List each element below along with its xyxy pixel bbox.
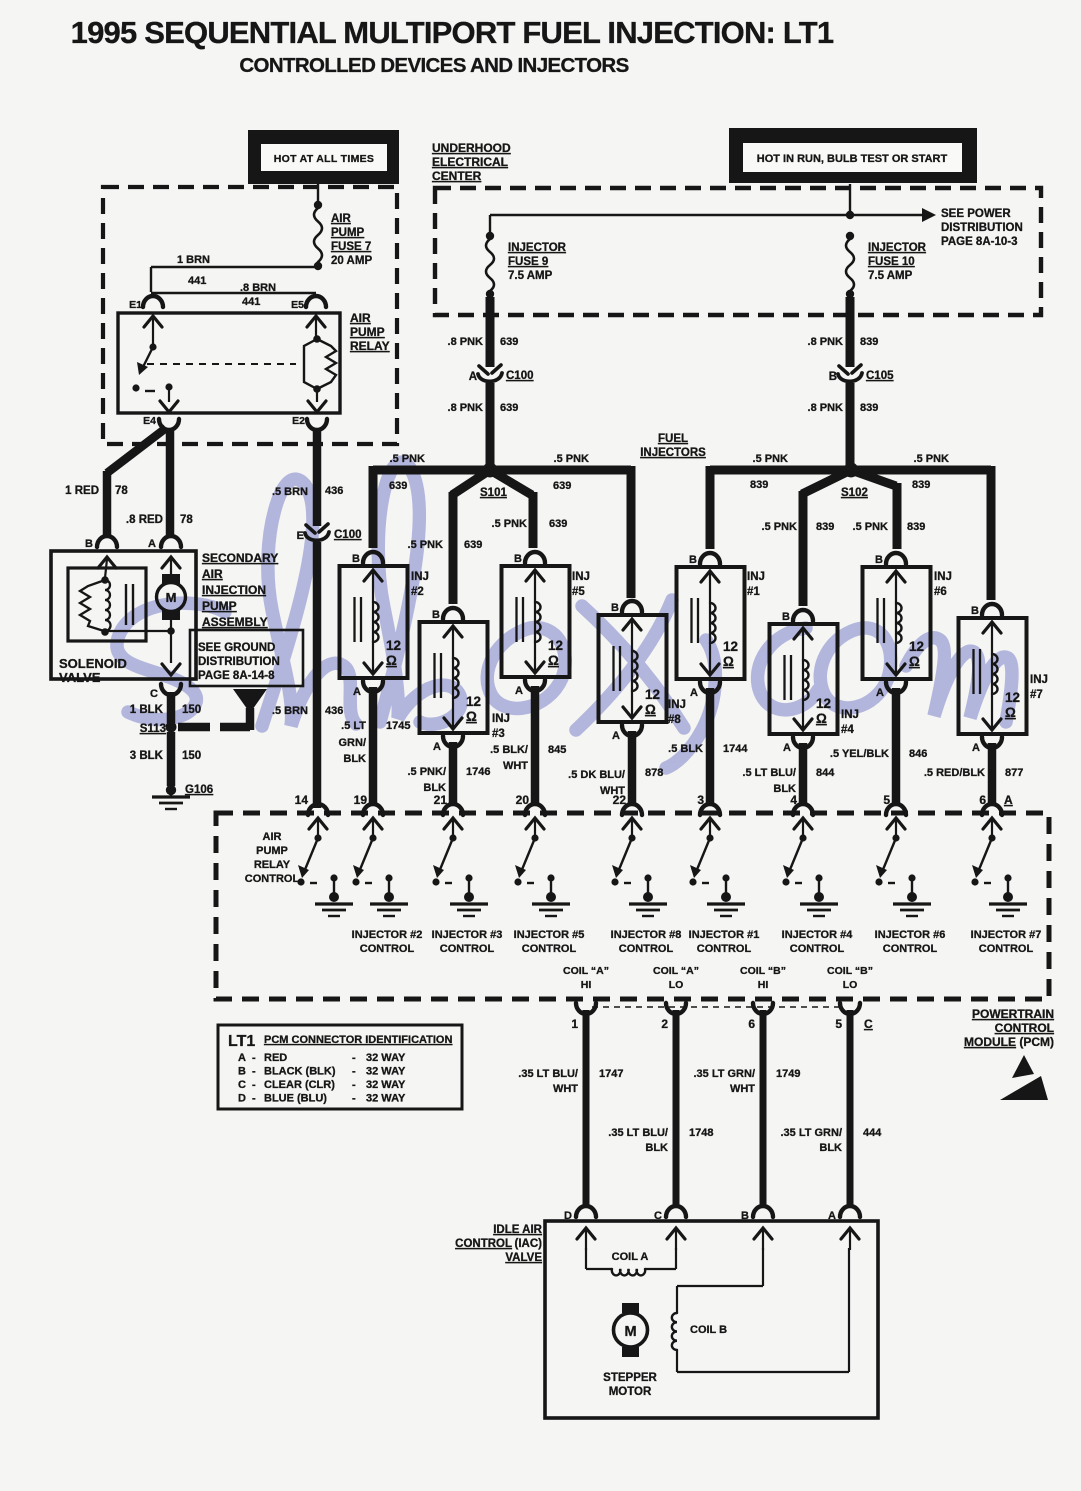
svg-text:.5 PNK: .5 PNK xyxy=(554,453,590,465)
svg-text:.5 LT BLU/: .5 LT BLU/ xyxy=(742,767,796,779)
svg-text:839: 839 xyxy=(860,336,878,348)
splice S113 xyxy=(166,722,177,733)
svg-text:-: - xyxy=(252,1066,256,1078)
svg-text:.5 BLK: .5 BLK xyxy=(668,743,703,755)
dashed box: air pump relay section xyxy=(103,187,397,444)
relay switch xyxy=(149,343,156,350)
wire injector output to PCM pin 21 xyxy=(449,742,458,806)
svg-text:A: A xyxy=(238,1052,246,1064)
svg-text:639: 639 xyxy=(500,336,518,348)
PCM pin connector and driver switch (INJECTOR #8) xyxy=(611,804,667,916)
svg-text:12: 12 xyxy=(548,638,563,653)
svg-text:HOT AT ALL TIMES: HOT AT ALL TIMES xyxy=(274,153,374,165)
svg-text:COIL “B”: COIL “B” xyxy=(827,965,873,977)
svg-text:AIR: AIR xyxy=(350,311,371,325)
wire PCM to IAC pin C xyxy=(673,1010,680,1206)
HOT IN RUN, BULB TEST OR START feed box xyxy=(729,128,977,183)
svg-text:RELAY: RELAY xyxy=(350,339,390,353)
wire from HOT AT ALL TIMES xyxy=(317,184,319,204)
svg-text:IDLE AIR: IDLE AIR xyxy=(493,1224,542,1236)
svg-text:AIR: AIR xyxy=(331,213,352,225)
svg-text:B: B xyxy=(514,553,522,565)
svg-text:-: - xyxy=(352,1079,356,1091)
svg-text:PUMP: PUMP xyxy=(331,227,365,239)
svg-text:E: E xyxy=(297,530,304,542)
terminal A xyxy=(161,536,181,547)
off-page ground triangle xyxy=(233,689,267,713)
svg-text:INJ: INJ xyxy=(934,571,952,583)
svg-text:WHT: WHT xyxy=(553,1083,578,1095)
svg-text:32 WAY: 32 WAY xyxy=(366,1079,406,1091)
svg-text:WHT: WHT xyxy=(503,760,528,772)
PCM pin connector and driver switch (INJECTOR #6) xyxy=(875,804,931,916)
svg-text:12: 12 xyxy=(386,638,401,653)
svg-text:B: B xyxy=(829,371,837,383)
svg-text:-: - xyxy=(352,1093,356,1105)
svg-text:INJECTOR: INJECTOR xyxy=(868,242,927,254)
splice S101 branches xyxy=(373,466,490,475)
injector INJ #6 xyxy=(863,553,952,699)
svg-text:846: 846 xyxy=(909,748,927,760)
injector INJ #3 xyxy=(420,608,510,753)
wire .8 BRN 441 to E5 xyxy=(151,292,316,294)
svg-text:FUSE 10: FUSE 10 xyxy=(868,256,915,268)
svg-text:.5 PNK: .5 PNK xyxy=(753,453,789,465)
IAC terminal A xyxy=(840,1206,860,1217)
svg-text:Ω: Ω xyxy=(723,654,734,669)
svg-text:Ω: Ω xyxy=(386,653,397,668)
svg-text:.5 PNK: .5 PNK xyxy=(408,539,444,551)
PCM pin connector and driver switch (INJECTOR #5) xyxy=(514,804,570,916)
svg-text:UNDERHOOD: UNDERHOOD xyxy=(432,141,511,155)
svg-text:839: 839 xyxy=(860,402,878,414)
svg-text:1: 1 xyxy=(571,1017,578,1031)
svg-text:#1: #1 xyxy=(747,586,760,598)
PCM pin connector and driver switch (INJECTOR #7) xyxy=(971,804,1027,916)
svg-text:MOTOR: MOTOR xyxy=(609,1386,652,1398)
bus wire to power distribution xyxy=(490,214,928,216)
wire injector output to PCM pin 4 xyxy=(799,743,808,806)
svg-text:.8 PNK: .8 PNK xyxy=(808,402,844,414)
svg-text:.5 BRN: .5 BRN xyxy=(272,705,308,717)
wire injector output to PCM pin 5 xyxy=(892,688,901,806)
svg-text:839: 839 xyxy=(750,479,768,491)
svg-text:1 BLK: 1 BLK xyxy=(130,704,164,716)
svg-text:A: A xyxy=(433,741,441,753)
svg-text:#7: #7 xyxy=(1030,689,1043,701)
svg-text:878: 878 xyxy=(645,767,663,779)
svg-text:78: 78 xyxy=(115,485,128,497)
terminal C xyxy=(161,684,181,695)
svg-text:G106: G106 xyxy=(185,784,213,796)
svg-text:Ω: Ω xyxy=(909,654,920,669)
svg-text:1 BRN: 1 BRN xyxy=(177,254,210,266)
injector INJ #4 xyxy=(770,610,859,754)
svg-text:1746: 1746 xyxy=(466,766,490,778)
svg-text:C100: C100 xyxy=(506,370,534,382)
svg-text:(IAC): (IAC) xyxy=(515,1238,543,1250)
connector C100 pin A xyxy=(479,365,501,374)
svg-text:GRN/: GRN/ xyxy=(339,737,367,749)
svg-text:1 RED: 1 RED xyxy=(65,485,99,497)
svg-text:.5 BRN: .5 BRN xyxy=(272,486,308,498)
svg-text:436: 436 xyxy=(325,485,343,497)
wire .5 BRN 436 upper xyxy=(313,428,322,526)
IAC terminal D xyxy=(576,1206,596,1217)
svg-text:B: B xyxy=(782,611,790,623)
svg-text:E2: E2 xyxy=(292,415,305,427)
wire .8 PNK 839 upper xyxy=(846,297,855,367)
solenoid coil xyxy=(98,557,116,568)
injector INJ #5 xyxy=(502,552,590,697)
wire injector output to PCM pin 20 xyxy=(531,686,540,806)
svg-text:B: B xyxy=(85,538,93,550)
IAC terminal B xyxy=(753,1206,773,1217)
svg-text:877: 877 xyxy=(1005,767,1023,779)
svg-text:32 WAY: 32 WAY xyxy=(366,1093,406,1105)
svg-text:FUSE 9: FUSE 9 xyxy=(508,256,548,268)
solenoid core lines xyxy=(125,584,127,625)
svg-text:1745: 1745 xyxy=(386,720,410,732)
terminal B xyxy=(97,536,117,547)
svg-text:CONTROL: CONTROL xyxy=(697,943,752,955)
connector C100 pin E xyxy=(306,524,328,533)
svg-text:.5 LT: .5 LT xyxy=(341,720,366,732)
svg-text:BLK: BLK xyxy=(343,753,366,765)
svg-text:PAGE 8A-10-3: PAGE 8A-10-3 xyxy=(941,236,1017,248)
svg-text:STEPPER: STEPPER xyxy=(603,1372,657,1384)
svg-text:839: 839 xyxy=(912,479,930,491)
wire 1 BRN 441 xyxy=(151,266,318,268)
svg-text:HI: HI xyxy=(758,979,769,991)
svg-text:6: 6 xyxy=(748,1017,755,1031)
svg-text:SEE POWER: SEE POWER xyxy=(941,208,1011,220)
relay internal dashed link xyxy=(147,363,296,365)
stepper motor xyxy=(622,1303,639,1313)
svg-text:INJECTOR #8: INJECTOR #8 xyxy=(611,929,682,941)
svg-text:DISTRIBUTION: DISTRIBUTION xyxy=(941,222,1023,234)
svg-text:BLK: BLK xyxy=(819,1142,842,1154)
svg-text:A: A xyxy=(148,538,156,550)
svg-text:1744: 1744 xyxy=(723,743,748,755)
svg-text:S102: S102 xyxy=(841,487,868,499)
see ground distribution box xyxy=(190,630,303,686)
svg-text:E1: E1 xyxy=(129,299,142,311)
splice S102 node xyxy=(844,463,859,478)
terminal E2 xyxy=(307,419,327,430)
svg-text:Ω: Ω xyxy=(466,709,477,724)
svg-text:INJ: INJ xyxy=(1030,674,1048,686)
svg-text:3 BLK: 3 BLK xyxy=(130,750,164,762)
svg-text:CONTROL: CONTROL xyxy=(440,943,495,955)
svg-text:M: M xyxy=(166,590,177,605)
svg-text:HI: HI xyxy=(581,979,592,991)
svg-text:HOT IN RUN, BULB TEST OR START: HOT IN RUN, BULB TEST OR START xyxy=(757,153,948,165)
svg-text:12: 12 xyxy=(723,639,738,654)
svg-text:2: 2 xyxy=(661,1017,668,1031)
svg-text:1995 SEQUENTIAL MULTIPORT FUEL: 1995 SEQUENTIAL MULTIPORT FUEL INJECTION… xyxy=(71,15,834,50)
svg-text:639: 639 xyxy=(553,480,571,492)
svg-text:.5 RED/BLK: .5 RED/BLK xyxy=(924,767,985,779)
wire 1 BLK 150 xyxy=(167,692,176,723)
svg-text:POWERTRAIN: POWERTRAIN xyxy=(972,1007,1054,1021)
svg-text:M: M xyxy=(624,1324,636,1340)
svg-text:INJECTOR: INJECTOR xyxy=(508,242,567,254)
fuse 10 top node xyxy=(846,232,854,240)
svg-text:.5 YEL/BLK: .5 YEL/BLK xyxy=(830,748,889,760)
svg-text:CONTROLLED DEVICES AND INJECTO: CONTROLLED DEVICES AND INJECTORS xyxy=(239,54,628,77)
svg-text:ELECTRICAL: ELECTRICAL xyxy=(432,155,508,169)
svg-text:839: 839 xyxy=(907,521,925,533)
svg-text:RED: RED xyxy=(264,1052,287,1064)
svg-text:INJECTOR #4: INJECTOR #4 xyxy=(782,929,854,941)
svg-text:639: 639 xyxy=(389,480,407,492)
air pump fuse 7 xyxy=(314,208,322,262)
svg-text:#2: #2 xyxy=(411,586,424,598)
injector INJ #1 xyxy=(677,553,765,699)
svg-text:.5 PNK: .5 PNK xyxy=(914,453,950,465)
svg-text:DISTRIBUTION: DISTRIBUTION xyxy=(198,656,280,668)
svg-text:A: A xyxy=(612,730,620,742)
svg-text:INJ: INJ xyxy=(572,571,590,583)
svg-text:INJECTOR #6: INJECTOR #6 xyxy=(875,929,946,941)
svg-text:C: C xyxy=(864,1017,873,1031)
svg-text:SOLENOID: SOLENOID xyxy=(59,656,127,671)
svg-text:B: B xyxy=(238,1066,246,1078)
svg-text:12: 12 xyxy=(816,696,831,711)
svg-text:INJECTOR #2: INJECTOR #2 xyxy=(352,929,423,941)
svg-text:INJ: INJ xyxy=(668,699,686,711)
svg-text:20 AMP: 20 AMP xyxy=(331,255,372,267)
coil B xyxy=(762,1248,764,1286)
svg-text:COIL A: COIL A xyxy=(612,1251,649,1263)
PCM coil pin 5 xyxy=(840,1003,860,1014)
svg-text:C105: C105 xyxy=(866,370,894,382)
coil A xyxy=(585,1248,587,1269)
svg-text:CONTROL: CONTROL xyxy=(522,943,577,955)
svg-text:INJECTOR #5: INJECTOR #5 xyxy=(514,929,585,941)
terminal E5 xyxy=(306,296,326,307)
pump motor M xyxy=(162,557,180,568)
svg-text:1747: 1747 xyxy=(599,1068,623,1080)
wire .8 RED 78 xyxy=(166,430,175,538)
svg-text:D: D xyxy=(238,1093,246,1105)
svg-text:150: 150 xyxy=(182,750,201,762)
svg-text:-: - xyxy=(252,1093,256,1105)
svg-text:1749: 1749 xyxy=(776,1068,800,1080)
svg-text:COIL “B”: COIL “B” xyxy=(740,965,786,977)
PCM coil pin 6 xyxy=(753,1003,773,1014)
svg-text:A: A xyxy=(353,686,361,698)
svg-text:SEE GROUND: SEE GROUND xyxy=(198,642,275,654)
svg-text:639: 639 xyxy=(500,402,518,414)
svg-text:A: A xyxy=(876,687,884,699)
svg-text:INJECTION: INJECTION xyxy=(202,583,266,597)
injector INJ #7 xyxy=(959,604,1048,754)
svg-text:7.5 AMP: 7.5 AMP xyxy=(868,270,913,282)
svg-text:Ω: Ω xyxy=(816,711,827,726)
svg-text:150: 150 xyxy=(182,704,201,716)
wire from HOT IN RUN down xyxy=(849,184,851,215)
svg-text:PAGE 8A-14-8: PAGE 8A-14-8 xyxy=(198,670,275,682)
fuse 9 top node xyxy=(486,232,494,240)
svg-text:12: 12 xyxy=(909,639,924,654)
wire PCM to IAC pin B xyxy=(760,1010,767,1206)
wire .8 PNK 639 lower xyxy=(486,383,495,465)
dashed link between coil pins xyxy=(592,1006,844,1008)
svg-text:Ω: Ω xyxy=(548,653,559,668)
svg-text:FUSE 7: FUSE 7 xyxy=(331,241,371,253)
svg-text:WHT: WHT xyxy=(730,1083,755,1095)
svg-text:.5 PNK: .5 PNK xyxy=(853,521,889,533)
svg-text:12: 12 xyxy=(645,687,660,702)
svg-text:CONTROL: CONTROL xyxy=(979,943,1034,955)
PCM pin connector and driver switch (INJECTOR #3) xyxy=(432,804,488,916)
svg-text:E5: E5 xyxy=(291,299,304,311)
svg-text:A: A xyxy=(469,371,477,383)
splice S102 branches xyxy=(710,466,851,475)
IAC terminal C xyxy=(666,1206,686,1217)
svg-text:INJ: INJ xyxy=(492,713,510,725)
LT1 PCM connector identification box xyxy=(218,1025,462,1109)
svg-text:CONTROL: CONTROL xyxy=(360,943,415,955)
HOT AT ALL TIMES feed box xyxy=(248,130,399,184)
svg-text:COIL “A”: COIL “A” xyxy=(563,965,609,977)
svg-text:.35 LT GRN/: .35 LT GRN/ xyxy=(693,1068,755,1080)
svg-text:845: 845 xyxy=(548,744,566,756)
svg-text:441: 441 xyxy=(188,275,206,287)
svg-text:E4: E4 xyxy=(143,415,156,427)
svg-text:B: B xyxy=(432,609,440,621)
svg-text:78: 78 xyxy=(180,514,193,526)
svg-text:7.5 AMP: 7.5 AMP xyxy=(508,270,553,282)
ground G106 xyxy=(166,785,176,795)
svg-text:-: - xyxy=(252,1079,256,1091)
arrow to page 8A-10-3 xyxy=(922,208,936,222)
dashed box: PCM xyxy=(216,813,1049,999)
PCM pin connector and driver switch (INJECTOR #2) xyxy=(352,804,408,916)
svg-text:INJ: INJ xyxy=(411,571,429,583)
svg-text:C100: C100 xyxy=(334,529,362,541)
svg-text:441: 441 xyxy=(242,296,260,308)
svg-text:COIL “A”: COIL “A” xyxy=(653,965,699,977)
svg-text:639: 639 xyxy=(464,539,482,551)
svg-text:FUEL: FUEL xyxy=(658,433,688,445)
svg-text:S101: S101 xyxy=(480,487,507,499)
svg-text:A: A xyxy=(972,742,980,754)
svg-text:12: 12 xyxy=(1005,690,1020,705)
svg-text:.5 DK BLU/: .5 DK BLU/ xyxy=(568,769,625,781)
wire .8 PNK 839 lower xyxy=(846,383,855,465)
svg-text:CONTROL: CONTROL xyxy=(790,943,845,955)
svg-text:VALVE: VALVE xyxy=(505,1252,542,1264)
svg-text:ASSEMBLY: ASSEMBLY xyxy=(202,615,268,629)
svg-text:Ω: Ω xyxy=(1005,705,1016,720)
svg-text:CONTROL: CONTROL xyxy=(995,1021,1054,1035)
svg-text:#8: #8 xyxy=(668,714,681,726)
svg-text:444: 444 xyxy=(863,1127,882,1139)
svg-text:-: - xyxy=(352,1052,356,1064)
svg-text:RELAY: RELAY xyxy=(254,859,291,871)
svg-text:#6: #6 xyxy=(934,586,947,598)
svg-text:A: A xyxy=(1004,793,1013,807)
svg-text:INJECTOR #7: INJECTOR #7 xyxy=(971,929,1042,941)
svg-text:CONTROL: CONTROL xyxy=(245,873,300,885)
wire to ground distribution xyxy=(178,723,210,732)
svg-text:PUMP: PUMP xyxy=(256,845,288,857)
injector INJ #8 xyxy=(599,601,686,742)
svg-text:PUMP: PUMP xyxy=(350,325,385,339)
svg-text:-: - xyxy=(352,1066,356,1078)
svg-text:B: B xyxy=(352,553,360,565)
wire PCM to IAC pin D xyxy=(583,1010,590,1206)
svg-text:B: B xyxy=(689,554,697,566)
svg-text:839: 839 xyxy=(816,521,834,533)
svg-text:AIR: AIR xyxy=(202,567,223,581)
svg-text:32 WAY: 32 WAY xyxy=(366,1052,406,1064)
svg-text:LT1: LT1 xyxy=(228,1033,255,1050)
wire to terminal C xyxy=(170,632,172,663)
svg-text:B: B xyxy=(971,605,979,617)
terminal E4 xyxy=(159,419,179,430)
svg-text:5: 5 xyxy=(835,1017,842,1031)
svg-text:CONTROL: CONTROL xyxy=(455,1238,512,1250)
svg-text:INJ: INJ xyxy=(841,709,859,721)
wire injector output to PCM pin 22 xyxy=(628,731,637,806)
wire injector output to PCM pin 3 xyxy=(706,688,715,806)
svg-text:INJECTOR #3: INJECTOR #3 xyxy=(432,929,503,941)
wire injector output to PCM pin 19 xyxy=(369,687,378,806)
dashed box: underhood electrical center xyxy=(435,188,1041,315)
svg-text:#5: #5 xyxy=(572,586,585,598)
svg-text:LO: LO xyxy=(843,979,858,991)
svg-text:#4: #4 xyxy=(841,724,854,736)
svg-text:(PCM): (PCM) xyxy=(1019,1035,1054,1049)
svg-text:-: - xyxy=(252,1052,256,1064)
svg-text:639: 639 xyxy=(549,518,567,530)
svg-text:.8 BRN: .8 BRN xyxy=(240,282,276,294)
relay coil xyxy=(313,335,321,343)
svg-text:LO: LO xyxy=(669,979,684,991)
svg-text:A: A xyxy=(515,685,523,697)
watermark shbox,com script xyxy=(117,462,1012,768)
svg-text:COIL B: COIL B xyxy=(690,1324,727,1336)
solenoid inner box xyxy=(68,568,146,641)
svg-text:INJ: INJ xyxy=(747,571,765,583)
svg-text:S113: S113 xyxy=(140,723,166,735)
svg-text:INJECTORS: INJECTORS xyxy=(640,447,706,459)
wire .5 BRN 436 lower xyxy=(313,542,322,808)
svg-text:.8 PNK: .8 PNK xyxy=(448,402,484,414)
svg-text:436: 436 xyxy=(325,705,343,717)
PCM pin connector and driver switch (INJECTOR #1) xyxy=(689,804,745,916)
svg-text:AIR: AIR xyxy=(263,831,282,843)
svg-text:.8 PNK: .8 PNK xyxy=(808,336,844,348)
svg-text:1748: 1748 xyxy=(689,1127,713,1139)
svg-text:Ω: Ω xyxy=(645,702,656,717)
svg-text:MODULE: MODULE xyxy=(964,1035,1016,1049)
secondary air injection pump assembly box xyxy=(51,551,196,679)
junction node on bus xyxy=(846,211,854,219)
svg-text:A: A xyxy=(690,687,698,699)
svg-text:C: C xyxy=(238,1079,246,1091)
IAC valve box xyxy=(545,1221,878,1418)
svg-text:BLACK (BLK): BLACK (BLK) xyxy=(264,1066,336,1078)
svg-text:.35 LT GRN/: .35 LT GRN/ xyxy=(780,1127,842,1139)
svg-text:B: B xyxy=(611,602,619,614)
svg-text:.8 PNK: .8 PNK xyxy=(448,336,484,348)
svg-text:PCM CONNECTOR IDENTIFICATION: PCM CONNECTOR IDENTIFICATION xyxy=(264,1034,452,1046)
